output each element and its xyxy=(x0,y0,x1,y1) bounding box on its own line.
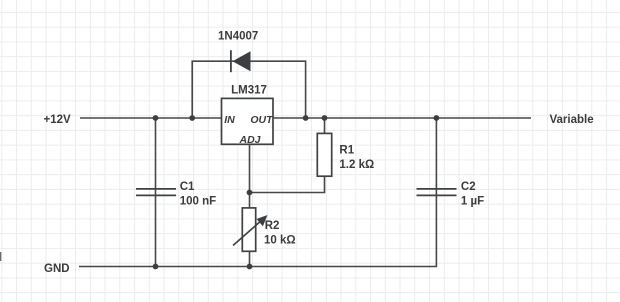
svg-text:1.2 kΩ: 1.2 kΩ xyxy=(339,159,374,171)
svg-text:GND: GND xyxy=(44,263,70,275)
svg-text:C2: C2 xyxy=(461,181,476,193)
svg-text:R2: R2 xyxy=(265,220,280,232)
svg-text:1N4007: 1N4007 xyxy=(218,31,258,43)
svg-text:R1: R1 xyxy=(339,145,354,157)
svg-text:10 kΩ: 10 kΩ xyxy=(264,235,296,247)
svg-text:ADJ: ADJ xyxy=(238,134,261,146)
svg-text:1 µF: 1 µF xyxy=(461,196,484,208)
svg-text:LM317: LM317 xyxy=(231,85,267,97)
svg-text:100 nF: 100 nF xyxy=(180,196,216,208)
svg-text:IN: IN xyxy=(224,114,235,126)
svg-text:OUT: OUT xyxy=(250,114,274,126)
svg-text:+12V: +12V xyxy=(44,114,72,126)
svg-text:C1: C1 xyxy=(180,181,195,193)
svg-text:Variable: Variable xyxy=(550,114,594,126)
